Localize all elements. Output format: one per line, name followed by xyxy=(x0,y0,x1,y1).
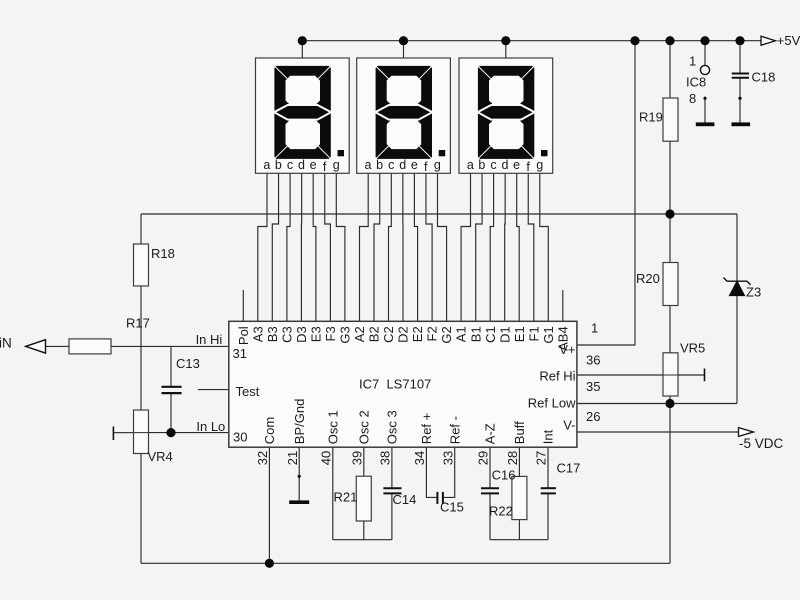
svg-text:D2: D2 xyxy=(396,326,411,343)
wire display2 c to IC C2 xyxy=(389,173,392,321)
capacitor C13 plates xyxy=(162,387,182,393)
wire IC8 pin8 to ground xyxy=(704,97,706,123)
resistor R19 xyxy=(663,98,678,141)
C18 ground bar xyxy=(732,122,751,126)
svg-text:A3: A3 xyxy=(250,326,265,342)
7-segment display DIS1 decimal point xyxy=(338,150,345,156)
wire C13 lower branch xyxy=(170,394,172,433)
capacitor C14 plates xyxy=(383,488,401,493)
svg-text:F1: F1 xyxy=(526,326,541,341)
wire display3 b to IC B1 xyxy=(476,173,482,321)
svg-text:f: f xyxy=(323,160,327,174)
BP/Gnd ground bar xyxy=(289,500,309,504)
svg-text:E2: E2 xyxy=(410,326,425,342)
wire C18 upper xyxy=(739,41,741,73)
potentiometer VR4 wiper end bar xyxy=(112,427,114,441)
svg-text:C13: C13 xyxy=(176,356,200,371)
wire Ref- pin 33 to C15 xyxy=(443,447,455,497)
capacitor C18 plates xyxy=(732,74,749,78)
svg-text:38: 38 xyxy=(378,451,393,465)
wire Ref Hi pin 36 xyxy=(577,374,705,376)
potentiometer VR4 body xyxy=(134,410,149,454)
-5VDC terminal arrow xyxy=(739,428,754,437)
svg-text:f: f xyxy=(526,160,530,174)
svg-text:1: 1 xyxy=(591,321,598,336)
wire +5V rail xyxy=(301,40,761,42)
wire bus rail node A xyxy=(141,213,737,215)
svg-text:G3: G3 xyxy=(338,326,353,343)
svg-text:30: 30 xyxy=(233,429,247,444)
node IC8 branch xyxy=(700,36,709,45)
7-segment display DIS1 digit xyxy=(274,66,330,159)
svg-text:c: c xyxy=(490,158,496,172)
capacitor C18 lower dot xyxy=(738,97,741,100)
svg-text:C3: C3 xyxy=(280,326,295,343)
wire Ref+ pin 34 to C15 xyxy=(426,447,437,497)
wire Osc3 pin 38 lower xyxy=(391,493,393,539)
wire Osc1 pin 40 xyxy=(332,447,334,540)
svg-text:d: d xyxy=(298,158,305,172)
node V+ branch xyxy=(630,36,639,45)
wire display2 b to IC B2 xyxy=(374,173,380,321)
IC bottom pin labels xyxy=(262,399,556,445)
svg-text:e: e xyxy=(513,158,520,172)
node display2 top xyxy=(399,36,408,45)
svg-text:f: f xyxy=(424,160,428,174)
svg-text:R17: R17 xyxy=(126,316,150,331)
potentiometer VR4 wiper line xyxy=(113,432,133,434)
svg-text:F3: F3 xyxy=(323,326,338,341)
svg-text:33: 33 xyxy=(440,451,455,465)
svg-text:V-: V- xyxy=(563,417,575,432)
wire Z3 branch upper xyxy=(736,214,738,281)
wire IC8 pin1 stub xyxy=(704,41,706,66)
svg-text:C2: C2 xyxy=(381,326,396,343)
svg-text:R20: R20 xyxy=(636,271,660,286)
svg-text:Buff: Buff xyxy=(512,421,527,444)
svg-text:1: 1 xyxy=(689,54,696,69)
node bus/R20 junction xyxy=(665,209,674,218)
IC8 pin 1 circle xyxy=(700,65,709,74)
wire A-Z pin 29 upper xyxy=(489,447,491,488)
svg-text:C14: C14 xyxy=(393,492,417,507)
wire display2 a to IC A2 xyxy=(360,173,369,321)
svg-text:D3: D3 xyxy=(294,326,309,343)
wire V- pin 26 to -5VDC xyxy=(577,431,739,433)
+5V terminal arrow xyxy=(761,36,776,45)
7-segment display DIS3 digit xyxy=(478,66,534,159)
wire Int pin 27 lower xyxy=(547,493,549,539)
svg-text:Ref Hi: Ref Hi xyxy=(539,369,575,384)
capacitor C15 plates xyxy=(437,492,443,504)
svg-text:8: 8 xyxy=(689,91,696,106)
7-segment display DIS3 box xyxy=(459,58,553,173)
wire display2 supply stub xyxy=(403,41,405,58)
svg-text:Osc 2: Osc 2 xyxy=(356,410,371,444)
svg-text:G1: G1 xyxy=(541,326,556,343)
svg-text:b: b xyxy=(376,158,383,172)
svg-text:Pol: Pol xyxy=(236,326,251,345)
zener diode Z3 anode triangle xyxy=(729,281,744,295)
svg-text:a: a xyxy=(365,158,372,172)
7-segment display DIS2 decimal point xyxy=(439,150,446,156)
svg-text:29: 29 xyxy=(476,451,491,465)
iN input terminal arrow xyxy=(26,340,46,353)
svg-text:Int: Int xyxy=(541,429,556,444)
wire display1 c to IC C3 xyxy=(287,173,290,321)
junction dots on +5V rail xyxy=(166,36,744,568)
wire display1 f to IC F3 xyxy=(325,173,331,321)
svg-text:+5V: +5V xyxy=(777,33,800,48)
resistor R21 xyxy=(356,476,371,521)
svg-text:40: 40 xyxy=(318,451,333,465)
wire oscillator group connector xyxy=(333,539,392,541)
wire display3 e to IC E1 xyxy=(517,173,520,321)
wire display1 supply stub xyxy=(301,41,303,58)
svg-text:g: g xyxy=(333,158,340,172)
svg-text:In Lo: In Lo xyxy=(196,419,225,434)
svg-text:F2: F2 xyxy=(425,326,440,341)
svg-text:31: 31 xyxy=(233,346,247,361)
wire V+ pin 1 to +5V rail xyxy=(577,41,635,345)
resistor R17 xyxy=(69,339,111,354)
capacitor C16 plates xyxy=(481,488,499,493)
svg-text:C1: C1 xyxy=(483,326,498,343)
potentiometer VR4 wiper crossing xyxy=(134,432,149,434)
svg-text:d: d xyxy=(502,158,509,172)
svg-text:35: 35 xyxy=(586,379,600,394)
svg-text:iN: iN xyxy=(0,335,12,350)
svg-text:IC8: IC8 xyxy=(686,75,706,90)
svg-text:C18: C18 xyxy=(752,70,776,85)
svg-text:27: 27 xyxy=(534,451,549,465)
wire display3 a to IC A1 xyxy=(461,173,470,321)
wire display3 c to IC C1 xyxy=(490,173,493,321)
node In Lo / C13 junction xyxy=(166,428,175,437)
wire display2 d to IC D2 xyxy=(402,173,404,321)
node Ref Low / VR5 junction xyxy=(665,399,674,408)
svg-text:21: 21 xyxy=(285,451,300,465)
svg-text:a: a xyxy=(467,158,474,172)
capacitor C17 plates xyxy=(541,488,556,493)
wire Ref Low pin 35 xyxy=(577,403,737,405)
svg-text:R19: R19 xyxy=(639,110,663,125)
svg-text:AB4: AB4 xyxy=(555,326,570,351)
wire display3 d to IC D1 xyxy=(504,173,506,321)
wire Test stub xyxy=(198,389,229,391)
svg-text:34: 34 xyxy=(412,451,427,465)
potentiometer VR5 wiper end bar xyxy=(704,369,706,382)
svg-text:R18: R18 xyxy=(151,246,175,261)
svg-text:D1: D1 xyxy=(497,326,512,343)
svg-text:39: 39 xyxy=(349,451,364,465)
wire display2 f to IC F2 xyxy=(426,173,432,321)
node display1 top xyxy=(298,36,307,45)
svg-text:Ref -: Ref - xyxy=(447,416,462,444)
wire Buff pin 28 through R22 xyxy=(518,447,520,540)
svg-text:c: c xyxy=(287,158,293,172)
wire left branch R18/VR4 chain xyxy=(140,214,142,563)
svg-text:b: b xyxy=(478,158,485,172)
svg-text:BP/Gnd: BP/Gnd xyxy=(292,399,307,445)
svg-text:e: e xyxy=(310,158,317,172)
svg-text:In Hi: In Hi xyxy=(196,332,223,347)
svg-text:32: 32 xyxy=(255,451,270,465)
wire display3 f to IC F1 xyxy=(528,173,534,321)
svg-text:R21: R21 xyxy=(334,490,358,505)
svg-text:VR5: VR5 xyxy=(680,341,705,356)
svg-text:Osc 3: Osc 3 xyxy=(385,410,400,444)
IC bottom pin numbers xyxy=(255,451,549,465)
svg-text:C17: C17 xyxy=(557,461,581,476)
potentiometer VR5 body xyxy=(663,353,678,396)
IC top pin labels xyxy=(236,326,571,351)
wire Z3 branch lower xyxy=(736,296,738,404)
wire display1 a to IC A3 xyxy=(258,173,267,321)
svg-text:28: 28 xyxy=(505,451,520,465)
wire C13 branch xyxy=(170,346,172,386)
wire C18 lower to ground xyxy=(739,78,741,123)
node Com / ground rail junction xyxy=(265,559,274,568)
svg-text:e: e xyxy=(411,158,418,172)
wire display3 supply stub xyxy=(505,41,507,58)
wire display1 e to IC E3 xyxy=(313,173,316,321)
svg-text:g: g xyxy=(536,158,543,172)
pin stub Pol xyxy=(242,290,244,321)
wire display1 b to IC B3 xyxy=(272,173,278,321)
svg-text:VR4: VR4 xyxy=(148,449,173,464)
svg-text:Osc 1: Osc 1 xyxy=(325,410,340,444)
svg-text:d: d xyxy=(399,158,406,172)
wire integrator group connector xyxy=(490,539,548,541)
resistor R22 xyxy=(512,476,527,519)
zener diode Z3 cathode bar xyxy=(724,278,751,285)
svg-text:-5 VDC: -5 VDC xyxy=(739,436,784,451)
svg-text:B1: B1 xyxy=(468,326,483,342)
svg-text:a: a xyxy=(263,158,270,172)
svg-text:E1: E1 xyxy=(512,326,527,342)
wire display2 g to IC G2 xyxy=(438,173,447,321)
7-segment display DIS2 digit xyxy=(376,66,432,159)
svg-text:Com: Com xyxy=(262,417,277,444)
IC U7 body xyxy=(229,321,577,447)
svg-text:A1: A1 xyxy=(454,326,469,342)
svg-text:b: b xyxy=(275,158,282,172)
svg-text:A-Z: A-Z xyxy=(483,423,498,444)
7-segment display DIS1 box xyxy=(256,58,350,173)
wire bottom ground rail xyxy=(141,562,670,564)
wire R19 R20 VR5 chain xyxy=(669,41,671,564)
display segment letter labels xyxy=(263,158,543,174)
wire Osc2 pin 39 through R21 xyxy=(363,447,365,540)
svg-text:B3: B3 xyxy=(265,326,280,342)
svg-text:R22: R22 xyxy=(489,504,513,519)
wire A-Z pin 29 lower xyxy=(489,493,491,539)
pin stub AB4 xyxy=(562,290,564,321)
svg-text:36: 36 xyxy=(586,352,600,367)
BP/Gnd pin dot xyxy=(298,475,301,478)
IC8 pin 8 dot xyxy=(703,97,706,100)
node display3 top xyxy=(501,36,510,45)
wire In Hi (R17 to IC pin 31) xyxy=(111,345,229,347)
wire display2 e to IC E2 xyxy=(414,173,417,321)
wire iN arrow to R17 xyxy=(46,345,70,347)
svg-text:Ref +: Ref + xyxy=(419,413,434,444)
IC8 ground bar xyxy=(696,122,715,126)
svg-text:B2: B2 xyxy=(367,326,382,342)
wire In Lo (VR4 wiper line to IC pin 30) xyxy=(113,432,228,434)
wire display3 g to IC G1 xyxy=(540,173,549,321)
svg-text:A2: A2 xyxy=(352,326,367,342)
wire Com pin 32 to ground rail xyxy=(268,447,270,563)
svg-text:c: c xyxy=(388,158,394,172)
svg-text:C15: C15 xyxy=(440,500,464,515)
wire BP/Gnd pin 21 xyxy=(298,447,300,500)
potentiometer VR5 wiper crossing xyxy=(663,374,678,376)
7-segment display DIS3 decimal point xyxy=(541,150,548,156)
wire display1 d to IC D3 xyxy=(300,173,302,321)
resistor R18 xyxy=(134,244,149,286)
svg-text:G2: G2 xyxy=(439,326,454,343)
node R19 branch xyxy=(665,36,674,45)
svg-text:C16: C16 xyxy=(492,468,516,483)
wire display1 g to IC G3 xyxy=(336,173,345,321)
svg-text:Ref Low: Ref Low xyxy=(528,396,576,411)
resistor R20 xyxy=(663,263,678,306)
svg-text:IC7 LS7107: IC7 LS7107 xyxy=(359,377,431,392)
node C18 branch xyxy=(735,36,744,45)
svg-text:26: 26 xyxy=(586,409,600,424)
7-segment display DIS2 box xyxy=(357,58,451,173)
svg-text:Test: Test xyxy=(236,384,260,399)
svg-text:E3: E3 xyxy=(309,326,324,342)
wire Osc3 pin 38 upper xyxy=(391,447,393,488)
svg-text:g: g xyxy=(434,158,441,172)
wire Int pin 27 upper xyxy=(547,447,549,488)
svg-text:Z3: Z3 xyxy=(746,285,761,300)
